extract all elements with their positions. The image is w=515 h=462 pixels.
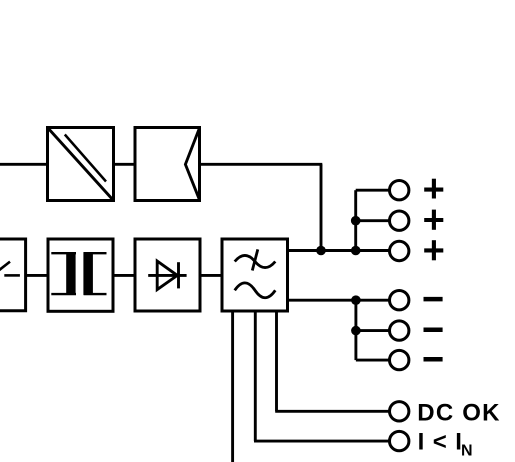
svg-text:I < I: I < I	[418, 428, 463, 455]
svg-text:N: N	[461, 443, 473, 460]
svg-text:DC OK: DC OK	[417, 400, 500, 427]
